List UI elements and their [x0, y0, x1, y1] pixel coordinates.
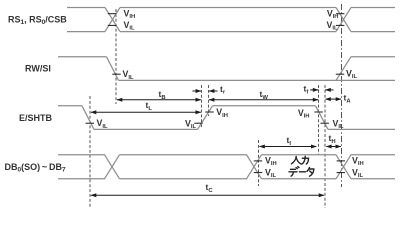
DB crossover 3 VIH tick	[337, 160, 345, 162]
E rising edge	[198, 106, 213, 130]
E falling edge 1	[82, 106, 94, 130]
svg-text:RS1, RS0/CSB: RS1, RS0/CSB	[8, 15, 67, 27]
RS bus rails middle	[120, 7, 336, 9]
RS crossover left VIL tick	[108, 24, 116, 26]
DB crossover 3	[336, 155, 351, 179]
reference line L1 (RS/RW transition)	[115, 9, 117, 104]
E high rail left	[58, 105, 82, 107]
DB crossover 2 VIL tick	[254, 172, 262, 174]
RW falling edge	[107, 57, 119, 81]
tC arrow	[91, 194, 324, 196]
tI arrow	[260, 146, 317, 148]
RW low rail	[119, 79, 396, 81]
reference line L6 (right transition, dash-dot)	[341, 4, 343, 187]
RS bus rails left	[67, 7, 105, 9]
reference line L5 (E fall2 VIL)	[324, 85, 326, 208]
DB crossover 3 VIL tick	[337, 172, 345, 174]
E rise VIL tick	[194, 122, 202, 124]
E rise VIH tick	[205, 111, 213, 113]
DB rails middle2	[262, 154, 337, 156]
RW rise VIL tick	[336, 73, 344, 75]
DB rails middle1	[120, 154, 248, 156]
RS crossover right	[336, 8, 351, 32]
RS crossover left	[105, 8, 120, 32]
DB crossover 2	[247, 155, 262, 179]
reference line L7 (data valid start)	[258, 140, 260, 186]
RW rising edge branch	[336, 57, 351, 81]
RW high rail left	[58, 56, 107, 58]
tH arrow	[326, 146, 341, 148]
tA arrow	[326, 98, 342, 100]
reference line L3 (E rise VIH)	[208, 85, 210, 116]
RW high rail right	[351, 56, 395, 58]
RS crossover left VIH tick	[108, 13, 116, 15]
svg-text:DB0(SO) ~ DB7: DB0(SO) ~ DB7	[5, 162, 66, 174]
reference line L0 (E fall VIL)	[89, 96, 91, 207]
DB rails right	[351, 154, 395, 156]
E fall2 VIL tick	[321, 122, 329, 124]
DB rails left	[58, 154, 105, 156]
RS crossover right VIH tick	[336, 13, 344, 15]
svg-text:RW/SI: RW/SI	[25, 64, 51, 74]
E falling edge 2	[316, 106, 329, 130]
reference line L2 (E rise VIL)	[200, 85, 202, 127]
E high rail 2	[213, 105, 316, 107]
RS bus rails right	[351, 7, 395, 9]
tf arrows	[310, 89, 319, 91]
E low rail 1	[94, 128, 198, 130]
E fall1 VIL tick	[86, 122, 94, 124]
DB crossover 1	[105, 155, 120, 179]
reference line L4 (E fall2 VIH)	[318, 85, 320, 155]
svg-text:E/SHTB: E/SHTB	[19, 113, 53, 123]
E fall2 VIH tick	[314, 111, 322, 113]
tB arrow	[117, 99, 201, 101]
tr arrows	[192, 90, 201, 92]
text 入力 データ (input data)	[289, 156, 314, 176]
RS crossover right VIL tick	[336, 24, 344, 26]
tW arrow	[209, 99, 318, 101]
DB crossover 2 VIH tick	[254, 160, 262, 162]
E low rail 2	[328, 128, 395, 130]
tL arrow	[91, 111, 201, 113]
RW fall VIL tick	[112, 73, 120, 75]
